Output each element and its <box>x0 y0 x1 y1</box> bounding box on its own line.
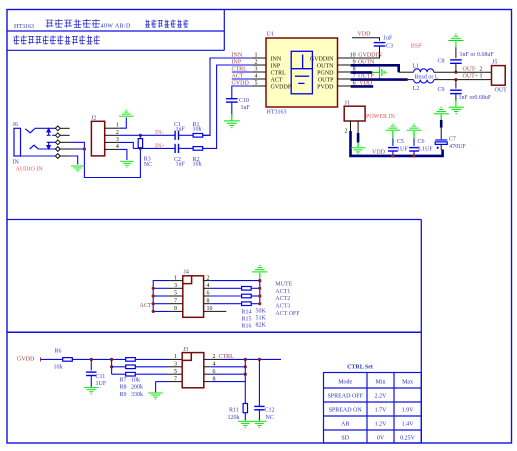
svg-text:4: 4 <box>207 283 210 289</box>
svg-text:4: 4 <box>255 74 258 80</box>
U1 pin names inside <box>271 56 335 90</box>
wire <box>231 114 233 121</box>
svg-text:200k: 200k <box>131 385 143 391</box>
svg-text:PVDD: PVDD <box>317 84 334 90</box>
wire <box>111 359 113 374</box>
svg-text:4: 4 <box>116 144 119 150</box>
svg-text:9: 9 <box>174 306 177 312</box>
wire <box>156 381 168 383</box>
J3 pin1 notch <box>182 353 191 361</box>
wire <box>135 358 168 360</box>
svg-text:VDD: VDD <box>358 32 372 38</box>
svg-text:VDD: VDD <box>372 150 386 156</box>
wire <box>112 366 126 368</box>
junction C5 <box>391 154 394 157</box>
wire <box>244 359 246 403</box>
section divider vertical <box>420 220 422 444</box>
capacitor C6 <box>409 148 419 151</box>
svg-text:R7: R7 <box>120 377 127 383</box>
junction <box>244 373 247 376</box>
wire <box>211 287 242 289</box>
svg-text:C3: C3 <box>386 44 393 50</box>
wire <box>349 131 352 156</box>
junction C9 <box>454 78 457 81</box>
svg-text:Max: Max <box>402 380 413 386</box>
wire <box>120 142 134 148</box>
wire <box>413 151 415 156</box>
resistor R16 <box>242 302 252 306</box>
svg-text:CTRL Set: CTRL Set <box>347 365 373 371</box>
wire ACT <box>232 78 252 80</box>
J4 right pin stubs <box>204 281 211 304</box>
svg-text:C6: C6 <box>418 139 425 145</box>
ground J2 pin4 <box>120 161 134 167</box>
svg-text:AUDIO IN: AUDIO IN <box>16 167 44 173</box>
wire <box>258 359 260 406</box>
svg-text:0V: 0V <box>377 436 385 442</box>
svg-text:5: 5 <box>174 369 177 375</box>
ground C9 <box>449 107 464 113</box>
svg-text:3: 3 <box>116 137 119 143</box>
wire <box>90 359 92 370</box>
ground C12 <box>252 421 266 427</box>
wire <box>211 358 223 360</box>
wire <box>211 295 242 297</box>
wire <box>440 120 443 128</box>
J3 left pin numbers <box>174 354 177 382</box>
svg-text:NC: NC <box>266 415 274 421</box>
wire ACT common <box>153 281 167 312</box>
wire jack sw1 <box>52 134 55 136</box>
node jack contact 5 <box>55 154 60 159</box>
J2 pin stubs <box>105 128 120 149</box>
wire <box>211 366 246 368</box>
svg-text:ACT OFF: ACT OFF <box>275 311 300 317</box>
wire <box>153 303 167 305</box>
svg-text:1: 1 <box>174 354 177 360</box>
U1 right pin stubs 10-6 <box>338 58 351 86</box>
wire <box>440 144 442 150</box>
svg-text:0.1UF: 0.1UF <box>418 147 434 153</box>
J3 right pin numbers <box>213 354 216 382</box>
ground C5 <box>386 124 400 130</box>
svg-text:AB: AB <box>341 422 349 428</box>
svg-text:INN: INN <box>271 56 282 62</box>
svg-text:2: 2 <box>345 129 348 135</box>
svg-text:470UF: 470UF <box>449 144 466 150</box>
capacitor C10 <box>226 99 238 102</box>
wire VDD bar <box>351 85 374 88</box>
svg-text:8: 8 <box>207 298 210 304</box>
resistor R2 <box>193 147 203 151</box>
wire VDD bus <box>349 150 442 156</box>
svg-text:C5: C5 <box>397 139 404 145</box>
wire jack sw2 <box>49 141 56 143</box>
svg-text:ACT3: ACT3 <box>275 304 290 310</box>
junction <box>258 302 261 305</box>
svg-text:INP: INP <box>271 63 281 69</box>
J4 pin1 notch <box>183 276 192 284</box>
U1 left pin stubs 1-5 <box>252 58 266 86</box>
ground C8 <box>448 34 463 40</box>
svg-text:SPREAD OFF: SPREAD OFF <box>327 394 363 400</box>
svg-text:1.9V: 1.9V <box>402 408 415 414</box>
wire <box>259 281 261 304</box>
wire OUTP thick <box>351 78 408 81</box>
junction <box>110 365 113 368</box>
wire <box>408 79 414 81</box>
resistor R14 <box>242 287 252 291</box>
wire <box>211 381 246 383</box>
svg-text:GVDDIN: GVDDIN <box>358 53 382 59</box>
wire <box>135 373 168 375</box>
svg-text:PGND: PGND <box>317 70 334 76</box>
resistor R1 <box>193 134 203 138</box>
svg-text:2: 2 <box>255 60 258 66</box>
svg-text:OUT: OUT <box>495 88 508 94</box>
junction <box>258 279 261 282</box>
svg-text:3: 3 <box>255 67 258 73</box>
svg-text:2: 2 <box>480 66 483 72</box>
svg-text:R9: R9 <box>120 392 127 398</box>
junction C11 <box>90 358 93 361</box>
svg-text:330k: 330k <box>131 392 143 398</box>
ground J1 <box>351 148 365 154</box>
junction <box>258 287 261 290</box>
section divider line 1 <box>7 219 421 221</box>
resistor R15 <box>242 294 252 298</box>
J3 right pin stubs <box>204 359 211 381</box>
resistor R7 <box>126 358 136 362</box>
resistor R6 <box>63 358 73 362</box>
svg-text:10k: 10k <box>193 126 202 132</box>
J4 right pin numbers <box>207 275 213 312</box>
capacitor C3 <box>374 43 386 46</box>
svg-text:6: 6 <box>207 291 210 297</box>
ground C11 <box>84 388 98 394</box>
wire <box>455 48 457 59</box>
wire CTRL <box>232 71 252 73</box>
svg-text:1.2V: 1.2V <box>375 422 388 428</box>
junction <box>152 302 155 305</box>
svg-text:OUTP: OUTP <box>318 77 334 83</box>
title block box <box>7 10 224 51</box>
junction R3 top <box>139 134 142 137</box>
wire <box>455 63 457 72</box>
svg-text:POWER IN: POWER IN <box>366 114 395 120</box>
wire OUT+ <box>434 79 492 81</box>
wire <box>139 147 141 150</box>
svg-text:C12: C12 <box>265 408 275 414</box>
wire <box>120 149 127 160</box>
resistor R8 <box>126 365 136 369</box>
svg-text:Min: Min <box>375 380 385 386</box>
table CTRL Set grid <box>324 373 422 444</box>
capacitor C9 <box>450 90 462 93</box>
svg-text:82K: 82K <box>256 323 267 329</box>
ground R11 <box>238 421 252 427</box>
svg-text:MUTE: MUTE <box>275 281 292 287</box>
svg-text:SD: SD <box>341 436 349 442</box>
svg-text:J5: J5 <box>492 60 497 66</box>
svg-text:GVDD: GVDD <box>17 357 35 363</box>
inductor L2 <box>414 80 434 83</box>
svg-text:51K: 51K <box>256 316 267 322</box>
ground jack sleeve <box>71 166 85 172</box>
svg-text:2: 2 <box>207 275 210 281</box>
wire IN+ <box>133 147 175 149</box>
svg-text:1.7V: 1.7V <box>375 408 388 414</box>
node jack contact 2 <box>55 133 60 138</box>
svg-text:R11: R11 <box>229 408 239 414</box>
capacitor C1 <box>175 131 178 140</box>
wire <box>120 118 127 129</box>
U1 inner amplifier symbol <box>291 51 312 94</box>
svg-text:2.2V: 2.2V <box>375 394 388 400</box>
svg-text:ACT: ACT <box>271 77 283 83</box>
wire <box>179 147 194 149</box>
svg-text:5: 5 <box>174 291 177 297</box>
ground J4 <box>252 265 267 271</box>
node jack contact 1 <box>55 126 60 131</box>
junction <box>244 365 247 368</box>
wire <box>71 156 78 165</box>
ground C7 <box>434 107 449 113</box>
node jack contact 4 <box>55 147 60 152</box>
wire <box>76 148 84 150</box>
J4 pin10 stub <box>204 310 227 312</box>
wire <box>90 376 92 387</box>
junction <box>152 287 155 290</box>
svg-text:7: 7 <box>174 376 177 382</box>
svg-text:L2: L2 <box>413 86 420 92</box>
svg-text:IN: IN <box>13 160 20 166</box>
svg-text:NC: NC <box>144 162 152 168</box>
svg-text:3: 3 <box>174 362 177 368</box>
U1 left pin numbers <box>255 53 258 87</box>
svg-text:50K: 50K <box>256 309 267 315</box>
capacitor C11 <box>86 372 96 375</box>
op-amp U1 HT3163 body <box>266 38 338 107</box>
svg-text:1: 1 <box>255 53 258 59</box>
capacitor C5 <box>388 148 398 151</box>
node jack contact 3 <box>55 140 60 145</box>
junction <box>152 310 155 313</box>
wire <box>135 366 168 368</box>
J4 left pin stubs <box>168 281 183 312</box>
svg-text:0.25V: 0.25V <box>400 436 416 442</box>
wire <box>211 303 242 305</box>
wire <box>251 287 260 289</box>
wire GVDD <box>232 86 252 97</box>
capacitor C12 <box>254 406 264 409</box>
svg-text:C10: C10 <box>239 98 249 104</box>
svg-text:1UF: 1UF <box>397 147 408 153</box>
ground C10 <box>224 121 240 128</box>
svg-text:BSP: BSP <box>411 44 422 50</box>
junction <box>110 358 113 361</box>
table CTRL Set text <box>327 380 415 442</box>
svg-text:R6: R6 <box>55 348 62 354</box>
junction <box>152 294 155 297</box>
wire J1 pin2 <box>350 121 352 131</box>
wire <box>251 303 260 305</box>
svg-text:10: 10 <box>207 306 213 312</box>
svg-text:1.4V: 1.4V <box>402 422 415 428</box>
wire <box>455 80 457 89</box>
ground J2 pin1 <box>119 110 133 116</box>
wire <box>179 134 194 136</box>
wire <box>392 151 394 156</box>
wire <box>153 287 167 289</box>
wire CTRL out <box>223 358 282 360</box>
wire <box>72 358 125 360</box>
svg-text:5: 5 <box>255 81 258 87</box>
wire <box>41 358 63 360</box>
wire <box>168 366 182 368</box>
svg-text:J6: J6 <box>13 122 18 128</box>
wire <box>399 71 414 73</box>
wire <box>203 134 211 136</box>
svg-text:1nF or 0.68uF: 1nF or 0.68uF <box>460 52 495 58</box>
wire VDD <box>352 38 380 41</box>
wire <box>251 295 260 297</box>
svg-text:OUT-: OUT- <box>463 66 477 72</box>
svg-text:GVDDP: GVDDP <box>271 84 292 90</box>
wire MUTE <box>211 280 260 282</box>
svg-text:1uF: 1uF <box>241 105 251 111</box>
svg-text:2: 2 <box>116 130 119 136</box>
J4 left pin numbers <box>174 275 177 312</box>
wire <box>112 373 126 375</box>
wire <box>351 46 380 58</box>
svg-text:R15: R15 <box>242 316 252 322</box>
svg-text:OUTN: OUTN <box>317 63 334 69</box>
resistor R3 <box>138 139 142 148</box>
svg-text:1nF or0.68uF: 1nF or0.68uF <box>459 95 492 101</box>
wire INN <box>203 58 252 135</box>
svg-text:1: 1 <box>116 123 119 129</box>
svg-text:HT3163: HT3163 <box>14 24 34 30</box>
junction jack ring <box>83 147 86 150</box>
svg-text:10k: 10k <box>54 365 63 371</box>
svg-text:10k: 10k <box>193 162 202 168</box>
svg-text:1: 1 <box>174 275 177 281</box>
wire <box>440 128 442 140</box>
junction C8 <box>454 71 457 74</box>
svg-text:C7: C7 <box>449 137 456 143</box>
svg-text:C11: C11 <box>96 374 106 380</box>
wire <box>211 373 246 375</box>
svg-text:120k: 120k <box>228 415 240 421</box>
ground J3 pin7 <box>148 393 162 399</box>
resistor R11 <box>243 404 247 413</box>
junction R11 <box>244 358 247 361</box>
capacitor C8 <box>450 60 462 63</box>
wire jack tip <box>35 127 56 129</box>
svg-text:40W AB/D: 40W AB/D <box>101 24 132 30</box>
junction C12 <box>258 358 261 361</box>
svg-text:R8: R8 <box>120 385 127 391</box>
svg-text:ACT: ACT <box>140 303 152 309</box>
svg-text:1uF: 1uF <box>176 162 186 168</box>
title text line 2: company CJK <box>14 35 100 44</box>
wire jack signal loop <box>71 142 141 177</box>
junction C6 <box>412 154 415 157</box>
svg-text:C8: C8 <box>438 59 445 65</box>
svg-text:GVDDIN: GVDDIN <box>310 56 334 62</box>
wire OUT- <box>434 71 492 73</box>
U1 right pin numbers <box>350 53 356 87</box>
wire <box>357 133 360 143</box>
svg-text:J4: J4 <box>184 270 189 276</box>
ground pin8 sideways <box>372 66 386 78</box>
wire INP <box>203 65 252 148</box>
svg-text:3: 3 <box>174 283 177 289</box>
wire <box>413 139 415 146</box>
wire PGND <box>351 71 373 74</box>
svg-text:HT3163: HT3163 <box>267 110 287 116</box>
jack contact stubs <box>60 128 76 156</box>
wire IN- <box>120 134 176 136</box>
wire <box>168 373 182 375</box>
svg-text:OUT+: OUT+ <box>463 74 479 80</box>
wire <box>231 102 233 114</box>
junction R3 bottom <box>139 147 142 150</box>
section divider line 2 <box>7 331 421 333</box>
jack switch arrow 1 <box>47 129 51 136</box>
jack switch arrow 2 <box>47 142 51 149</box>
svg-text:R16: R16 <box>242 323 252 329</box>
svg-text:ACT2: ACT2 <box>275 296 290 302</box>
svg-text:C9: C9 <box>438 87 445 93</box>
svg-text:SPREAD ON: SPREAD ON <box>329 408 363 414</box>
wire <box>168 358 182 360</box>
wire J1 pin1 <box>357 121 359 133</box>
svg-text:1UF: 1UF <box>96 381 107 387</box>
wire <box>244 413 246 421</box>
wire <box>455 94 457 101</box>
junction <box>258 294 261 297</box>
wire <box>231 97 233 99</box>
svg-text:Mode: Mode <box>338 380 352 386</box>
wire OUTN thick <box>351 65 399 72</box>
wire <box>168 381 182 383</box>
svg-text:1: 1 <box>480 74 483 80</box>
ground C6 <box>407 124 421 130</box>
svg-text:7: 7 <box>174 298 177 304</box>
svg-text:1uF: 1uF <box>383 36 393 42</box>
wire <box>153 295 167 297</box>
svg-text:ACT1: ACT1 <box>275 289 290 295</box>
wire <box>139 135 141 138</box>
svg-text:10k: 10k <box>131 377 140 383</box>
svg-text:CTRL: CTRL <box>271 70 287 76</box>
svg-text:1uF: 1uF <box>176 126 186 132</box>
wire jack sleeve <box>14 155 55 157</box>
svg-text:R14: R14 <box>242 309 252 315</box>
J2 pin numbers <box>116 123 119 150</box>
resistor R9 <box>126 372 136 376</box>
title text line 1: HT3163 CJK 40W AB/D CJK <box>14 19 189 30</box>
wire jack ring <box>38 148 55 150</box>
wire <box>392 139 394 146</box>
wire <box>258 410 260 421</box>
C7 polarity mark <box>437 146 440 149</box>
net label tick <box>40 357 42 361</box>
svg-text:U1: U1 <box>267 32 274 38</box>
capacitor C2 <box>175 144 178 153</box>
